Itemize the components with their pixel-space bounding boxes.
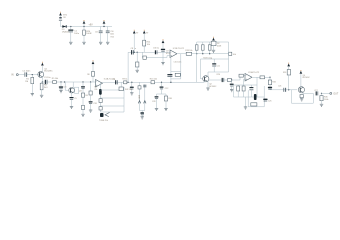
ground fb — [245, 97, 247, 107]
loop around Q3 — [75, 87, 79, 93]
node fb1 — [196, 53, 197, 54]
svg-text:IC2A TL072: IC2A TL072 — [248, 71, 260, 74]
svg-text:R36: R36 — [168, 98, 171, 100]
svg-text:100u: 100u — [74, 33, 80, 35]
svg-text:C25: C25 — [268, 100, 271, 102]
feedback vertical IC1B to main wire — [170, 58, 172, 82]
node shunt 161 — [161, 82, 162, 83]
svg-text:100k: 100k — [324, 99, 328, 101]
diode D1 — [62, 25, 66, 28]
ground C28 — [155, 109, 158, 111]
node input bias — [32, 74, 33, 75]
ground R35 — [320, 104, 323, 106]
supply flag Q1 — [41, 63, 43, 66]
pot wiper arrows — [138, 101, 140, 104]
capacitor C15 47u — [100, 27, 102, 32]
svg-text:R42 22k: R42 22k — [125, 89, 132, 91]
cap C20 on right — [143, 84, 146, 86]
svg-text:TONE 25k: TONE 25k — [99, 120, 108, 122]
capacitor C8 series electrolytic — [131, 50, 133, 54]
op-amp IC1B — [170, 50, 177, 58]
ground R24 — [82, 42, 85, 44]
supply flag x144 — [143, 31, 145, 34]
resistor R8 bias — [92, 72, 95, 77]
transistor Q4 — [298, 87, 304, 93]
wire input — [18, 74, 24, 76]
supply flag fb rail — [212, 38, 214, 41]
resistor R19 — [196, 42, 198, 45]
wire Q3 collector — [72, 82, 74, 88]
svg-text:47u: 47u — [166, 53, 169, 55]
ground Q2 — [206, 88, 209, 90]
resistor R1 1M bias — [31, 75, 33, 78]
svg-text:R32: R32 — [272, 81, 275, 83]
node riser 128 — [127, 82, 128, 83]
tone row y106 — [100, 105, 124, 107]
feedback row y97 — [234, 96, 265, 98]
svg-text:C10 100n: C10 100n — [174, 62, 182, 64]
capacitor C4 shunt — [60, 82, 62, 86]
svg-text:10k: 10k — [147, 44, 150, 46]
resistor R21 end of row — [229, 52, 232, 55]
resistor R14 — [143, 40, 146, 46]
collector row — [208, 71, 229, 73]
fb right vertical — [256, 77, 258, 97]
svg-text:22k: 22k — [94, 89, 97, 91]
capacitor C22 shunt — [161, 82, 163, 86]
ground C13 — [230, 90, 233, 92]
power rail — [61, 26, 113, 28]
supply flag top at x84 — [83, 21, 85, 24]
wire plus input from fb — [244, 78, 245, 80]
ground C18 — [89, 110, 92, 112]
ground C16 — [106, 42, 109, 44]
resistor R24 100R — [83, 27, 85, 30]
svg-text:R26: R26 — [217, 74, 220, 76]
svg-text:C15: C15 — [95, 32, 98, 34]
node shunt 61 — [60, 81, 61, 82]
svg-text:BC549C: BC549C — [303, 77, 311, 79]
capacitor C25 right — [263, 99, 267, 100]
resistor R12 on left — [138, 86, 141, 89]
wire Q2 collector — [207, 72, 209, 76]
wire IC1A output — [102, 81, 104, 84]
svg-text:C28: C28 — [152, 101, 155, 103]
capacitor C3 series electrolytic — [44, 80, 46, 84]
svg-text:C27: C27 — [314, 90, 317, 92]
capacitor C30 series on bias wire — [154, 50, 156, 54]
wire bias row — [128, 51, 170, 53]
battery BT1 9V connector — [59, 13, 61, 16]
resistor R3 emitter — [40, 83, 43, 90]
ground R1 — [31, 94, 34, 96]
wire Q4 collector — [300, 74, 302, 87]
capacitor C7 shunt — [131, 82, 133, 86]
wire Q1 collector to supply — [41, 66, 43, 72]
svg-text:100n: 100n — [110, 34, 114, 36]
svg-text:R33: R33 — [283, 72, 286, 74]
wire battery to rail — [60, 20, 62, 26]
svg-text:C5: C5 — [74, 98, 76, 100]
potentiometer VR1 tone — [100, 113, 104, 117]
svg-text:C26: C26 — [278, 85, 281, 87]
resistor R20 — [202, 42, 204, 45]
resistor R34 emitter — [300, 95, 303, 98]
resistor R18 series out — [186, 52, 191, 55]
wire x144 down — [143, 34, 145, 40]
node x83 — [82, 81, 83, 82]
svg-text:+9V: +9V — [89, 24, 94, 26]
resistor R20b — [209, 42, 211, 45]
supply flag x163 — [162, 40, 164, 43]
wire Q1 emitter — [41, 77, 43, 82]
wire VB to plus input — [166, 56, 168, 58]
capacitor C11 in box — [213, 59, 215, 64]
feedback rect Q4 — [291, 90, 293, 103]
transistor Q2 — [203, 76, 209, 82]
tone row y98 — [100, 97, 124, 99]
resistor R11 on left column — [99, 107, 102, 110]
wire T split — [157, 93, 167, 95]
svg-text:R5 10k: R5 10k — [52, 78, 58, 80]
resistor R9 series — [124, 81, 127, 84]
node shunt 131.8 — [131, 82, 132, 83]
resistor R6 below — [81, 93, 84, 97]
ground C9 — [161, 63, 164, 65]
capacitor C28 left column — [156, 94, 158, 96]
capacitor C5 Q3 emitter — [69, 97, 73, 98]
supply flag IC1A bias — [92, 61, 94, 64]
VB rail — [141, 52, 143, 57]
tone network vertical left — [99, 82, 101, 112]
ground C5 — [70, 107, 73, 109]
node rail-104 — [103, 26, 104, 27]
feedback rail top — [197, 41, 229, 43]
capacitor C26 series — [283, 88, 285, 92]
svg-text:IN: IN — [11, 75, 14, 77]
capacitor C9 decoupling — [161, 49, 165, 50]
resistor R13 series — [151, 81, 155, 84]
capacitor C18 shunt x90 — [89, 101, 93, 102]
svg-text:R25: R25 — [111, 36, 114, 38]
resistor R29 fb — [243, 85, 245, 86]
ground R15 — [136, 70, 139, 72]
capacitor C12 series — [221, 78, 223, 82]
resistor R16 on VB — [143, 56, 146, 59]
svg-text:R23 1meg: R23 1meg — [203, 57, 212, 59]
svg-text:C30 1u: C30 1u — [153, 48, 159, 50]
wire Q1 emitter to IC1A — [42, 81, 95, 83]
wire up to IC2A minus — [232, 79, 240, 81]
node x90 — [90, 81, 91, 82]
node Q3 branch — [64, 81, 65, 82]
resistor R26 series — [227, 79, 231, 82]
resistor R28 fb — [237, 85, 239, 86]
supply flag at x104 — [103, 21, 105, 24]
wire x134 down — [133, 34, 135, 50]
node Q1 emitter — [42, 81, 43, 82]
svg-text:C8 1u: C8 1u — [131, 48, 136, 50]
loop top — [171, 71, 181, 73]
diode D2 column — [211, 41, 216, 45]
capacitor C2 input coupling — [24, 72, 26, 76]
ground D2 — [212, 50, 215, 52]
emitter wire — [303, 92, 314, 94]
svg-text:R18 10k: R18 10k — [185, 50, 192, 52]
svg-text:BC549C: BC549C — [44, 71, 53, 73]
svg-text:R6: R6 — [85, 95, 87, 97]
pot row bottom — [140, 110, 145, 112]
transistor Q3 — [69, 87, 75, 93]
resistor R7 below — [81, 106, 84, 110]
wire lower out — [270, 89, 297, 91]
ground Q4 — [301, 98, 303, 99]
fb left vertical — [233, 85, 235, 97]
pot box left vertical — [139, 82, 141, 110]
op-amp IC2A — [245, 73, 252, 81]
svg-text:C3 10u: C3 10u — [44, 77, 50, 79]
wire pot to cap — [141, 111, 143, 113]
resistor R15 divider lower — [136, 52, 138, 62]
svg-text:R9 1k: R9 1k — [122, 78, 127, 80]
vertical left Q2 box — [200, 59, 202, 79]
resistor R27 to minus — [239, 74, 243, 77]
svg-text:R8: R8 — [87, 74, 89, 76]
node bias divider — [137, 52, 138, 53]
resistor R17 in loop — [175, 73, 180, 76]
supply flag x288 — [288, 64, 290, 67]
box network right — [247, 90, 249, 107]
resistor R35 shunt — [321, 93, 323, 95]
ground pot — [141, 117, 144, 119]
svg-text:4148: 4148 — [217, 45, 221, 47]
loop right — [180, 54, 182, 79]
tone row y90 — [100, 89, 124, 91]
svg-text:Q3: Q3 — [79, 91, 82, 93]
tone vertical right — [123, 87, 125, 112]
ground C15 — [99, 42, 102, 44]
resistor R31 series out — [260, 76, 265, 79]
wire riser to bias row — [127, 52, 129, 82]
capacitor C19 blob on left column — [99, 89, 102, 95]
input terminal IN — [16, 74, 18, 76]
vertical right Q2 box — [228, 42, 230, 72]
wire to Q3 base — [64, 82, 66, 90]
supply flag x134 — [133, 31, 135, 34]
svg-text:R13 10k: R13 10k — [150, 79, 157, 81]
svg-text:OUT: OUT — [333, 93, 338, 95]
tone row y112 — [100, 111, 124, 113]
ground R36 — [164, 109, 167, 111]
wire Q4 emitter — [302, 92, 304, 93]
loop bottom — [171, 78, 181, 80]
wiper arrow VR1 — [105, 112, 110, 116]
wire divider down to main — [196, 54, 198, 83]
svg-text:10k: 10k — [233, 54, 236, 56]
node rail-C1 — [70, 26, 71, 27]
wire x90 down — [90, 82, 92, 91]
svg-text:C11: C11 — [217, 65, 220, 67]
wire Q2 out — [209, 79, 232, 81]
capacitor C10 in loop — [167, 74, 172, 76]
op-amp IC1A — [96, 79, 103, 87]
chain down x270 — [269, 77, 271, 80]
capacitor C27 output — [315, 91, 317, 95]
node bias Q4 — [288, 89, 289, 90]
resistor R10 on left column — [99, 99, 102, 103]
capacitor C1 100u — [70, 27, 72, 30]
resistor R36 right column — [165, 94, 167, 96]
box Q2 feedback top — [201, 58, 229, 60]
resistor R37 x90 — [89, 91, 92, 95]
svg-text:C6: C6 — [113, 79, 115, 81]
node out shunt — [321, 93, 322, 94]
ground C7 — [130, 93, 133, 95]
capacitor C16 100n — [107, 27, 109, 32]
feedback row y85 — [234, 84, 258, 86]
svg-text:IC1B TL072: IC1B TL072 — [173, 48, 185, 50]
ground C1 — [69, 42, 72, 44]
svg-text:100R: 100R — [86, 33, 92, 35]
capacitor C13 shunt — [231, 80, 233, 83]
resistor R5 series — [53, 81, 57, 84]
resistor R42 top right — [120, 82, 122, 87]
node out chain — [269, 77, 270, 78]
capacitor C24 blob — [254, 94, 257, 100]
wire x163 — [162, 43, 164, 48]
wire IC1B output — [177, 53, 229, 55]
pot box right vertical — [144, 84, 146, 110]
transistor Q1 — [38, 71, 44, 77]
capacitor C21 pot bottom — [140, 112, 144, 114]
ground x83 — [81, 114, 84, 116]
wire bias down — [92, 64, 94, 73]
capacitor C14 chain — [268, 87, 272, 88]
wire Q2 emitter — [207, 81, 209, 88]
resistor R33 bias — [287, 70, 290, 76]
node shunt 232 — [231, 79, 232, 80]
resistor R30 bottom — [251, 103, 257, 106]
capacitor C17 shunt x83 — [82, 82, 84, 86]
wire Q3 emitter — [71, 93, 73, 97]
ground R3 — [40, 95, 43, 97]
svg-text:C22: C22 — [165, 88, 168, 90]
supply flag Q4 — [300, 71, 302, 74]
capacitor C6 series — [115, 80, 117, 84]
svg-text:C18: C18 — [93, 103, 96, 105]
svg-text:1M: 1M — [25, 81, 28, 83]
wire IC2A out — [252, 76, 270, 78]
svg-text:BC549C: BC549C — [209, 86, 217, 88]
output terminal — [322, 92, 330, 94]
node rail-84 — [83, 26, 84, 27]
svg-text:GAIN: GAIN — [138, 94, 141, 99]
wire C2 to base — [27, 74, 40, 76]
svg-text:C2 100n: C2 100n — [22, 70, 31, 72]
ground C4 — [59, 91, 62, 93]
capacitor C23 fb — [250, 85, 252, 88]
